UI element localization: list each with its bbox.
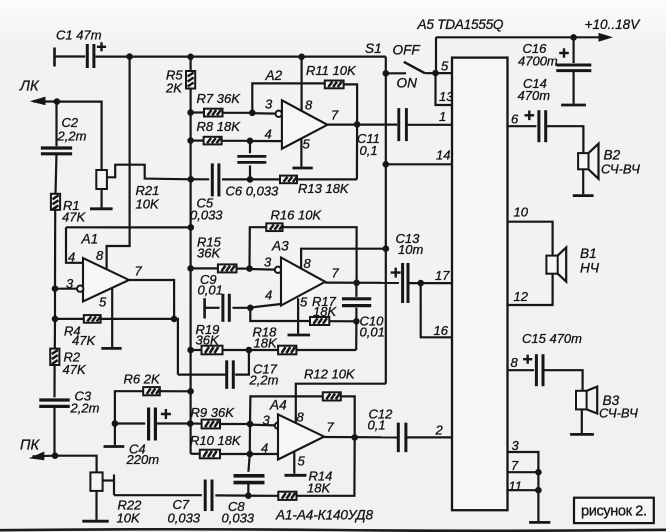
node A2 output junction [354,121,361,128]
wire R21 wiper to C5 line [107,165,191,180]
capacitor C16 [572,37,574,63]
svg-text:0,033: 0,033 [222,511,255,526]
svg-text:C6 0,033: C6 0,033 [226,184,280,199]
wire R16 to A3 output riser [283,227,357,283]
wire chip pin10 [507,222,553,256]
resistor R16 [266,223,283,231]
resistor R5 [190,57,192,71]
node R6 junction [187,388,194,395]
node A4 pin4 junction [247,451,254,458]
arrow PK input [33,455,56,458]
capacitor C6 [249,141,251,154]
svg-text:R11 10K: R11 10K [306,63,357,78]
svg-text:47K: 47K [63,362,87,377]
svg-text:3: 3 [264,255,272,270]
ground R22 [82,520,108,523]
node A1 supply junction [188,224,195,231]
node A3 output junction [353,280,360,287]
svg-text:A1: A1 [81,232,99,247]
wire chip pin12 [507,274,553,305]
svg-text:47K: 47K [72,333,96,348]
svg-text:4: 4 [265,127,272,142]
svg-text:10K: 10K [117,511,141,526]
svg-text:ON: ON [397,76,418,91]
resistor R7 [191,111,204,113]
resistor R9 [190,422,201,424]
wire A1 output [129,280,174,319]
svg-text:В1: В1 [580,246,597,261]
wire C13 to chip pin17 [408,282,452,284]
node C6 bottom junction [247,176,254,183]
svg-text:4700m: 4700m [518,54,558,69]
wire S1 bus top corner [385,57,387,384]
wire pin3-pin4 link [249,424,251,454]
capacitor C9 [205,307,220,309]
svg-text:2,2m: 2,2m [249,373,279,388]
svg-text:0,033: 0,033 [190,208,223,223]
svg-text:рисунок 2.: рисунок 2. [581,504,647,520]
wire blade to pin5 node [425,72,436,74]
wire C12 to chip pin2 [406,436,452,438]
svg-text:A3: A3 [271,239,289,254]
resistor R8 [191,140,204,142]
svg-text:R7 36K: R7 36K [197,91,242,106]
svg-text:47K: 47K [62,210,86,225]
svg-text:7: 7 [135,264,143,279]
wire C14 to B2 [546,126,584,153]
wire chip pin14 [386,163,452,165]
node A4 output junction [351,434,358,441]
wire B2 ground stub [582,169,584,194]
wire A1 pin5 to ground [111,288,113,347]
node C4-R9 junction [187,420,194,427]
resistor R17 [310,317,329,325]
svg-text:7: 7 [327,420,335,435]
wire mid-rail bus [190,89,192,454]
resistor R10 [191,453,200,455]
node C8-C7-R14 junction [245,492,252,499]
ground B2 [573,194,594,197]
resistor R18 [249,349,278,351]
ground R21 [90,207,113,210]
node C4 left junction [112,420,119,427]
switch S1 blade [404,62,425,73]
wire A2 pin3 [252,112,275,115]
wire R11 to A2 output [344,84,358,124]
node A2 pin3 junction [249,110,256,117]
node R5 top junction [187,54,194,61]
wire A1 output to C17 [174,319,178,375]
wire A2 output [327,123,397,125]
node A3 pin3 junction [246,265,253,272]
svg-text:18K: 18K [307,481,331,496]
svg-text:8: 8 [511,355,519,370]
svg-text:0,01: 0,01 [360,325,385,340]
ground B3 [570,433,594,436]
svg-text:А1-А4-К140УД8: А1-А4-К140УД8 [275,508,373,523]
svg-text:8: 8 [305,98,313,113]
node C10-R17-R18 junction [353,318,360,325]
svg-text:3: 3 [66,276,74,291]
wire A1 mid-rail drop [129,57,131,228]
wire chip pin6 [507,125,537,127]
wire R13 riser to A2 output [356,124,358,179]
node PK junction [52,452,59,459]
node pin14 bus junction [383,161,390,168]
svg-text:7: 7 [331,108,339,123]
wire LK to R21 top [57,102,102,170]
input circle A3 pin3 [275,267,281,273]
capacitor C8 [248,454,249,472]
svg-text:2: 2 [435,422,444,437]
wire C15 to B3 [543,370,583,391]
wire A4 output [324,436,397,439]
op-amp A3 [281,258,325,306]
figure caption box [574,498,654,523]
wire A3 pin5 to ground [297,298,299,333]
resistor R13 [250,178,280,180]
svg-text:5: 5 [300,295,308,310]
IC A5 TDA1555Q [452,58,508,511]
capacitor C15 [535,354,538,386]
svg-text:11: 11 [509,478,523,493]
resistor R14 [248,495,278,497]
resistor R12 [323,392,341,400]
svg-text:A4: A4 [269,398,287,413]
capacitor C1 [53,48,56,67]
capacitor C7 [204,480,207,512]
svg-text:0,033: 0,033 [168,511,201,526]
node A2 pin4 junction [247,138,254,145]
wire chip pin16 branch [421,283,452,337]
capacitor C17 [235,350,249,375]
svg-text:4: 4 [261,441,268,456]
svg-text:10K: 10K [136,197,160,212]
svg-text:ПК: ПК [20,438,41,454]
wire R18 riser to C10 node [355,321,357,350]
arrow +V [599,33,614,42]
input circle A2 pin3 [276,111,282,117]
wire S1 fixed contact [386,72,406,74]
wire R17 branch [250,308,310,321]
wire chip pin11 [507,489,539,491]
svg-text:3: 3 [512,438,520,453]
wire R12 feedback branch [250,396,323,424]
wire R17 to C10 node [329,320,356,322]
ground A4 pin5 [285,474,307,477]
svg-text:5: 5 [99,295,107,310]
ground C16 [561,104,586,107]
resistor R4 [55,318,84,320]
svg-text:5: 5 [298,454,306,469]
svg-text:ЛК: ЛК [19,79,40,95]
wire A2 pin5 to ground [300,139,302,167]
wire A1 pin3 [55,288,77,290]
svg-text:3: 3 [263,413,271,428]
wire B3 ground stub [581,409,583,433]
svg-text:8: 8 [304,256,312,271]
wire input line to R2 [54,319,56,349]
svg-text:2,2m: 2,2m [57,129,87,144]
wire chip pin7 [507,471,539,473]
svg-text:C15 470m: C15 470m [522,331,582,346]
resistor R2 [50,349,59,365]
svg-text:8: 8 [297,409,305,424]
capacitor C5 [191,178,209,180]
svg-text:10m: 10m [398,242,423,257]
node A3 pin4 junction [247,305,254,312]
wire A3 pin3 [250,268,275,271]
resistor R11 [325,81,344,89]
svg-text:12: 12 [514,289,529,304]
svg-text:36K: 36K [197,246,221,261]
svg-text:4: 4 [265,288,272,303]
node C13 right junction [417,280,424,287]
node C16 junction [570,34,577,41]
svg-text:+10..18V: +10..18V [585,17,642,32]
svg-text:220m: 220m [126,452,160,467]
wire R16 feedback branch [250,227,267,268]
node R8 junction [187,137,194,144]
resistor R19 [191,349,202,351]
wire C11 to chip pin1 [406,124,452,126]
ground C4 [104,445,125,448]
wire A2 pin8 [301,57,303,111]
wire A4 pin5 to ground [293,451,295,474]
svg-text:4: 4 [68,250,75,265]
wire A3 pin4 [250,304,281,308]
svg-text:5: 5 [441,58,449,73]
svg-text:R6 2K: R6 2K [124,372,161,387]
wire A2 pin4 [250,140,282,142]
input circle A4 pin3 [275,423,281,429]
node LK junction [54,98,61,105]
svg-text:A5 TDA1555Q: A5 TDA1555Q [417,17,504,32]
wire A3 pin8 [301,249,386,269]
wire input line to R4 [54,289,56,319]
wire PK to R22 [55,456,97,473]
speaker B2 [578,153,588,169]
wire R14 riser to A4 output [297,437,355,495]
potentiometer R22 [90,472,102,491]
wire wiper to C7 [114,494,202,496]
node C1-A1 junction [126,53,133,60]
node A3 pin8 bus junction [383,245,390,252]
capacitor C11 [397,108,400,141]
node A1 output junction [171,316,178,323]
capacitor C9 terminal [203,298,206,318]
resistor R15 [191,267,218,269]
wire R22 ground stub [95,491,97,520]
wire R12 to A4 output [341,396,355,437]
wire input line R1 to A1 pin3 [54,210,56,289]
node R4 left junction [52,316,59,323]
wire chip pin5 [436,72,453,74]
node S1 junction [383,70,390,77]
wire A2 feedback loop [252,83,324,112]
ground A2 pin5 [292,167,312,170]
op-amp A4 [278,414,324,459]
ground A1 pin5 [101,347,121,350]
svg-text:18K: 18K [313,304,337,319]
svg-text:СЧ-ВЧ: СЧ-ВЧ [599,405,638,420]
capacitor C4 [115,422,145,424]
wire A1 pin8 [107,227,130,269]
wire A1 pin4 [66,227,83,262]
svg-text:S1: S1 [365,41,382,56]
node pin7 junction [535,469,542,476]
wire C4 ground stub [114,424,116,446]
wire top supply rail [96,55,386,57]
wire chip pin13 notch [436,73,453,105]
svg-text:470m: 470m [518,88,551,103]
capacitor C3 [53,365,55,397]
wire A4 pin8 to bus [296,384,386,423]
capacitor C10 [355,283,357,297]
svg-text:2,2m: 2,2m [70,401,100,416]
svg-text:18K: 18K [254,336,278,351]
node mid-rail bus / wiper junction [188,176,195,183]
speaker B1 [546,256,557,274]
potentiometer R21 [96,170,107,189]
op-amp A1 [83,258,129,302]
svg-text:36K: 36K [196,333,220,348]
svg-text:10: 10 [514,205,529,220]
svg-text:НЧ: НЧ [580,261,600,276]
svg-text:0,1: 0,1 [368,417,386,432]
arrow LK input [33,100,57,102]
wire chip pin3 [507,452,539,521]
svg-text:3: 3 [265,97,273,112]
svg-text:OFF: OFF [393,43,421,58]
svg-text:7: 7 [511,458,519,473]
ground chip pins [529,521,550,524]
op-amp A2 [282,100,328,148]
node R19-R18-C17 junction [246,347,253,354]
ground A3 pin5 [288,334,311,337]
svg-text:R10 18K: R10 18K [190,433,242,448]
wire A3 output [325,282,399,284]
wire R21 ground stub [100,189,102,208]
svg-text:6: 6 [511,112,519,127]
wire A4 pin4 [250,453,278,455]
input circle A1 pin3 [77,286,83,292]
svg-text:R13 18K: R13 18K [298,181,350,196]
node R19 junction [187,347,194,354]
svg-text:8: 8 [96,248,104,263]
svg-text:R12 10K: R12 10K [304,367,356,382]
node A1 pin3 junction [52,285,59,292]
resistor R1 [51,194,60,210]
node pin11 junction [535,487,542,494]
node chip pin5 junction [432,70,439,77]
svg-text:0,01: 0,01 [198,283,223,298]
wire R22 wiper [103,479,114,481]
svg-text:0,1: 0,1 [360,143,378,158]
node R7 junction [187,109,194,116]
scan edge bottom [0,529,666,531]
svg-text:14: 14 [436,148,450,163]
svg-text:2K: 2K [165,81,183,96]
capacitor C2 [55,102,57,147]
svg-text:A2: A2 [265,68,283,83]
svg-text:R8 18K: R8 18K [197,119,242,134]
svg-text:СЧ-ВЧ: СЧ-ВЧ [601,162,640,177]
wire +10..18V rail [436,36,606,38]
wire A4 pin3 [250,424,275,427]
speaker B3 [576,391,587,410]
capacitor C13 [391,268,401,278]
svg-text:R9 36K: R9 36K [191,405,236,420]
svg-text:R16 10K: R16 10K [271,208,323,223]
node R15 junction [187,265,194,272]
svg-text:7: 7 [332,266,340,281]
svg-text:B2: B2 [604,148,621,163]
svg-text:1: 1 [439,109,446,124]
capacitor C14 [537,110,540,142]
wire chip pin8 [507,369,535,371]
capacitor C12 [397,423,400,453]
svg-text:5: 5 [303,137,311,152]
resistor R6 [115,391,143,423]
wire A1 supply rail [66,226,191,228]
node A2 pin8 junction [298,54,305,61]
node A4 pin3 junction [247,421,254,428]
svg-text:16: 16 [434,323,449,338]
wire +V riser [435,37,437,73]
svg-text:17: 17 [435,268,450,283]
svg-text:C1 47m: C1 47m [56,28,102,43]
